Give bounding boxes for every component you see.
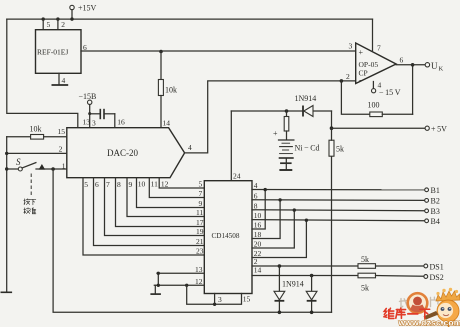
svg-text:7: 7	[199, 189, 203, 198]
svg-text:10k: 10k	[165, 86, 177, 95]
switch dashed actuation line	[30, 174, 32, 197]
svg-text:B3: B3	[431, 207, 440, 216]
svg-text:12: 12	[195, 277, 203, 286]
wire DAC pin8 to CD pin17	[116, 178, 205, 227]
svg-text:24: 24	[233, 172, 241, 181]
svg-text:16: 16	[254, 221, 262, 230]
svg-text:15: 15	[243, 295, 251, 304]
svg-text:4: 4	[188, 143, 192, 152]
svg-text:14: 14	[163, 119, 171, 128]
wire DAC pin4 to op-amp pin2	[185, 81, 356, 153]
capacitor C1 leads	[90, 113, 100, 115]
wire feedback lower path	[341, 81, 369, 114]
svg-text:DAC-20: DAC-20	[107, 148, 138, 158]
svg-text:1N914: 1N914	[295, 94, 317, 103]
terminal +5V	[425, 126, 429, 130]
resistor R2 10k vertical	[160, 52, 162, 80]
svg-text:U: U	[431, 61, 438, 71]
svg-text:CD14508: CD14508	[212, 232, 240, 240]
svg-text:7: 7	[377, 44, 381, 53]
wire tie pin13-pin12	[157, 273, 159, 285]
wire DAC pin1 with switch	[7, 168, 19, 170]
svg-text:1: 1	[62, 161, 66, 170]
latch U4 CD14508 body	[204, 181, 252, 294]
terminal DS2	[424, 275, 428, 279]
wire capacitor to DAC pin16	[114, 114, 116, 128]
svg-text:7: 7	[106, 180, 110, 189]
svg-text:Ni − Cd: Ni − Cd	[295, 144, 320, 153]
wire CD pin10 to B4	[252, 220, 425, 221]
terminal +15V	[70, 5, 74, 9]
wire bottom rail up right side	[331, 156, 333, 312]
resistor R7 5k DS2	[358, 273, 376, 278]
watermark text weiku	[384, 308, 394, 318]
node junction output feedback	[411, 63, 415, 67]
svg-text:2: 2	[346, 72, 350, 81]
svg-text:K: K	[439, 66, 444, 73]
svg-text:www.dzsc.com: www.dzsc.com	[398, 318, 460, 327]
node junction on pin6 wire to 10k	[159, 50, 163, 54]
svg-text:11: 11	[151, 180, 158, 189]
svg-text:6: 6	[254, 191, 258, 200]
switch arrow	[39, 164, 46, 170]
wire CD pin12	[154, 284, 204, 286]
svg-text:+15V: +15V	[78, 4, 97, 13]
svg-text:+: +	[359, 48, 364, 57]
svg-text:5: 5	[84, 180, 88, 189]
terminal B4	[425, 219, 429, 223]
svg-text:S: S	[16, 157, 21, 167]
wire 10k to DAC pin14	[160, 96, 162, 128]
svg-text:12: 12	[161, 180, 169, 189]
terminal DS1	[424, 264, 428, 268]
terminal -15V	[372, 89, 376, 93]
wire op-amp output	[396, 64, 425, 66]
node junction battery branch	[285, 109, 289, 113]
wire CD pin13	[157, 272, 204, 274]
svg-text:1N914: 1N914	[282, 280, 304, 289]
terminal Uk output	[425, 63, 429, 67]
svg-text:13: 13	[195, 265, 203, 274]
svg-text:DS2: DS2	[430, 273, 444, 282]
wire left rail lower	[6, 137, 8, 292]
ground left rail bottom	[1, 291, 13, 293]
svg-text:18: 18	[254, 230, 262, 239]
wire REF pin 2 lead	[57, 19, 59, 30]
svg-text:− 15 V: − 15 V	[379, 88, 401, 97]
wire DAC pin7 to CD pin19	[105, 178, 205, 236]
wire CD pin14 to DS2	[252, 275, 358, 277]
svg-text:DS1: DS1	[430, 263, 444, 272]
node junction on rail at +15V	[70, 17, 73, 20]
wire DAC pin2	[7, 152, 67, 154]
terminal B1	[425, 188, 429, 192]
watermark badge circle	[408, 293, 428, 313]
watermark mascot	[424, 288, 460, 327]
op-amp U3 OP-05CP	[356, 43, 396, 84]
wire CD pin8 to B3	[252, 210, 425, 211]
svg-text:15: 15	[58, 127, 66, 136]
watermark faint char right	[431, 297, 439, 306]
svg-text:REF-01EJ: REF-01EJ	[37, 48, 68, 57]
svg-text:2: 2	[59, 145, 63, 154]
voltage reference U2 REF-01EJ	[36, 30, 82, 74]
wire DAC pin10 to CD pin9	[137, 178, 205, 208]
svg-text:9: 9	[129, 180, 133, 189]
resistor R4 100	[370, 112, 383, 117]
svg-text:B1: B1	[431, 186, 440, 195]
svg-text:16: 16	[117, 118, 125, 127]
DAC U1 DAC-20 body	[67, 128, 185, 178]
svg-text:10k: 10k	[30, 125, 42, 134]
wire CD pin16 up to B1	[252, 190, 265, 229]
svg-text:8: 8	[254, 201, 258, 210]
wire CD pin2b to DS1	[252, 265, 358, 267]
wire top +15V rail	[7, 18, 373, 20]
svg-text:17: 17	[196, 218, 204, 227]
wire CD pin18 up to B2	[252, 200, 280, 239]
svg-text:+: +	[273, 129, 278, 138]
wire op-amp pin4 lead	[372, 82, 374, 89]
wire CD pins 3 and 15 net	[187, 285, 242, 304]
wire DAC pin5 to CD pin23	[83, 178, 204, 255]
wire feedback up to output	[412, 65, 414, 115]
resistor R3 5k vertical	[329, 140, 334, 156]
svg-text:3: 3	[218, 295, 222, 304]
svg-text:2: 2	[61, 20, 65, 29]
wire REF pin6 to op-amp pin3	[81, 50, 356, 52]
wire CD pin6 to B2	[252, 199, 425, 202]
svg-text:10: 10	[138, 180, 146, 189]
svg-text:5k: 5k	[361, 284, 369, 293]
wire +5V line	[332, 127, 426, 129]
wire DAC pin12 to CD pin5	[159, 178, 204, 188]
svg-text:6: 6	[95, 180, 99, 189]
wire REF pin4 lead	[58, 73, 60, 84]
svg-text:B4: B4	[431, 217, 440, 226]
wire DAC pin6 to CD pin21	[94, 178, 205, 246]
wire DAC pin11 to CD pin2	[149, 178, 204, 198]
diode D3 1N914 right	[310, 274, 314, 278]
wire REF pin 5 lead	[42, 19, 44, 30]
svg-text:6: 6	[400, 56, 404, 65]
svg-text:23: 23	[196, 247, 204, 256]
svg-text:CP: CP	[359, 69, 368, 78]
wire switch node down to bottom rail	[53, 169, 331, 312]
svg-text:100: 100	[368, 101, 380, 110]
ground under REF-01EJ	[52, 84, 69, 86]
resistor R6 5k DS1	[358, 264, 376, 269]
diode D2 1N914 left	[278, 264, 282, 268]
svg-text:21: 21	[196, 237, 204, 246]
resistor R5 above battery	[286, 111, 288, 117]
wire left +15V rail down to DAC pin13	[7, 19, 78, 128]
svg-text:+ 5V: + 5V	[431, 125, 447, 134]
svg-text:9: 9	[199, 199, 203, 208]
terminal -15B	[88, 100, 92, 104]
svg-text:4: 4	[254, 181, 258, 190]
ground for CD pins 12 13	[154, 285, 156, 293]
terminal B2	[425, 199, 429, 203]
wire CD pin24 lead	[230, 111, 232, 181]
svg-text:3: 3	[349, 42, 353, 51]
svg-text:20: 20	[254, 240, 262, 249]
wire op-amp pin7 lead from rail	[372, 19, 374, 50]
svg-text:−15B: −15B	[79, 92, 97, 101]
svg-text:11: 11	[196, 208, 203, 217]
wire CD pin20 up to B3	[252, 210, 294, 248]
svg-text:5k: 5k	[336, 145, 344, 154]
svg-text:8: 8	[117, 180, 121, 189]
wire CD pin4 to B1	[252, 189, 425, 191]
wire diode top line from CD pin24 node	[231, 110, 331, 112]
node junction +5V tap	[330, 126, 334, 130]
node junction rail to REF pin5	[42, 17, 45, 20]
svg-text:4: 4	[62, 76, 66, 85]
svg-text:10: 10	[254, 211, 262, 220]
node junction rail to REF pin2	[56, 17, 59, 20]
wire -15B to DAC pin3	[89, 105, 91, 128]
node junction pin12 to pin3/15 net	[185, 284, 188, 287]
node junction op-amp pin2 feedback	[340, 79, 344, 83]
node junction pin1 to down rail	[51, 167, 55, 171]
watermark faint char left	[399, 298, 408, 307]
svg-text:5: 5	[47, 20, 51, 29]
capacitor C1 plates	[99, 109, 101, 119]
wire CD pin3 lead	[214, 294, 216, 305]
terminal B3	[425, 209, 429, 213]
wire DAC pin9 to CD pin11	[127, 178, 204, 217]
svg-text:B2: B2	[431, 197, 440, 206]
resistor R1 10k horizontal on pin15	[7, 136, 31, 138]
svg-text:14: 14	[254, 266, 262, 275]
ground under battery	[285, 159, 287, 163]
svg-text:13: 13	[83, 118, 91, 127]
label press-to-calibrate	[24, 199, 30, 205]
wire CD pin22 up to B4	[252, 220, 306, 257]
svg-text:19: 19	[196, 227, 204, 236]
svg-text:3: 3	[92, 119, 96, 128]
svg-text:5k: 5k	[361, 255, 369, 264]
svg-text:5: 5	[199, 180, 203, 189]
